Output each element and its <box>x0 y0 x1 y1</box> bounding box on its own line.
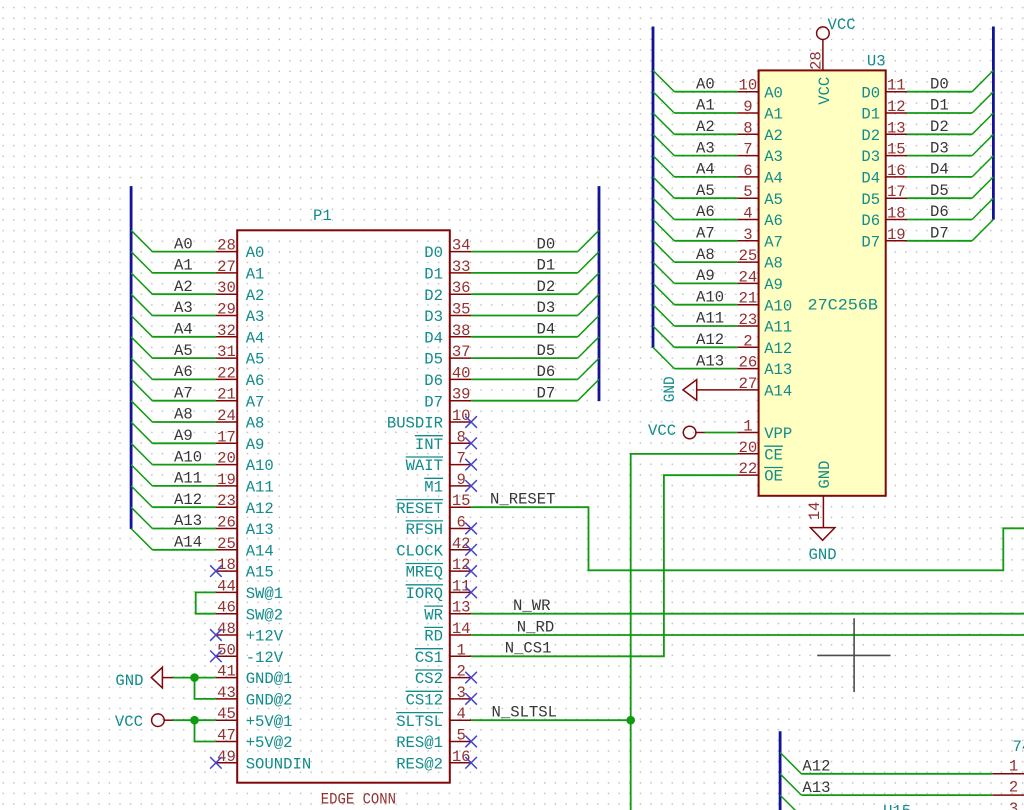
no-connect CLOCK <box>465 544 477 556</box>
wire D7 from P1 <box>471 400 578 402</box>
svg-text:GND: GND <box>809 546 837 564</box>
label A12 (U3) <box>696 331 724 349</box>
svg-text:17: 17 <box>887 183 906 201</box>
bus entry D6 (right) <box>972 198 993 219</box>
svg-text:21: 21 <box>217 386 236 404</box>
svg-text:RES@1: RES@1 <box>396 734 443 752</box>
pin 13 WR of P1 <box>424 599 471 625</box>
svg-text:45: 45 <box>217 705 236 723</box>
svg-text:20: 20 <box>217 450 236 468</box>
svg-text:4: 4 <box>457 705 466 723</box>
no-connect INT <box>465 438 477 450</box>
wire N_WR <box>471 613 1024 615</box>
svg-text:D0: D0 <box>861 84 880 102</box>
bus entry D1 (right) <box>972 92 993 113</box>
bus entry D1 <box>578 252 599 273</box>
wire A13 to P1 <box>152 528 216 530</box>
svg-text:A10: A10 <box>764 297 792 315</box>
pin 11 IORQ of P1 <box>406 577 472 603</box>
pin 12 MREQ of P1 <box>406 556 472 582</box>
pin 25 A14 of P1 <box>216 535 274 561</box>
label D4 (U3 right) <box>930 161 949 179</box>
svg-text:A13: A13 <box>696 352 724 370</box>
wire A10 to P1 <box>152 464 216 466</box>
label A7 (U3) <box>696 225 715 243</box>
pin 8 A2 of U3 <box>737 119 783 145</box>
svg-text:GND: GND <box>816 461 834 489</box>
svg-text:30: 30 <box>217 279 236 297</box>
label A1 (U3) <box>696 97 715 115</box>
svg-text:A5: A5 <box>246 351 265 369</box>
no-connect M1 <box>465 480 477 492</box>
pin 3 A7 of U3 <box>737 226 783 252</box>
svg-text:D4: D4 <box>861 170 880 188</box>
wire A11 to U3 <box>674 325 737 327</box>
bus entry D4 <box>578 316 599 337</box>
svg-text:A12: A12 <box>764 340 792 358</box>
svg-text:D5: D5 <box>424 351 443 369</box>
svg-text:D6: D6 <box>424 372 443 390</box>
svg-text:A4: A4 <box>246 329 265 347</box>
svg-text:A9: A9 <box>696 267 715 285</box>
svg-text:27: 27 <box>217 258 236 276</box>
label A9 <box>174 427 193 445</box>
pin 20 A10 of P1 <box>216 450 274 476</box>
no-connect SOUNDIN <box>210 757 222 769</box>
svg-text:A12: A12 <box>696 331 724 349</box>
svg-text:A13: A13 <box>246 521 274 539</box>
pin 3 CS12 of P1 <box>406 684 472 710</box>
bus entry A3 <box>131 294 152 315</box>
svg-text:A0: A0 <box>174 235 193 253</box>
pin 18 D6 of U3 <box>861 205 907 231</box>
svg-text:27C256B: 27C256B <box>808 296 879 314</box>
svg-text:D3: D3 <box>930 139 949 157</box>
svg-text:19: 19 <box>217 471 236 489</box>
svg-text:26: 26 <box>217 514 236 532</box>
value EDGE CONN <box>321 791 396 809</box>
no-connect WAIT <box>465 459 477 471</box>
svg-text:3: 3 <box>743 226 752 244</box>
wire VCC to pin +5V@2 <box>195 720 216 741</box>
label D2 <box>537 278 556 296</box>
label A10 (U3) <box>696 288 724 306</box>
label D7 (U3 right) <box>930 225 949 243</box>
svg-text:A3: A3 <box>696 139 715 157</box>
reference U15 <box>883 803 911 810</box>
pin 26 A13 of U3 <box>737 354 792 380</box>
label D6 (U3 right) <box>930 203 949 221</box>
pin 13 D2 of U3 <box>861 119 907 145</box>
pin 19 D7 of U3 <box>861 226 907 252</box>
pin 7 WAIT of P1 <box>406 450 472 476</box>
svg-text:D2: D2 <box>861 127 880 145</box>
pin 5 A5 of U3 <box>737 183 783 209</box>
label A10 <box>174 448 202 466</box>
svg-text:41: 41 <box>217 663 236 681</box>
pin 3 of U15 (clipped) <box>1009 800 1018 810</box>
label A3 (U3) <box>696 139 715 157</box>
svg-text:A2: A2 <box>764 127 783 145</box>
wire D2 from U3 <box>907 133 972 135</box>
svg-text:GND@2: GND@2 <box>246 692 293 710</box>
svg-text:D7: D7 <box>537 384 556 402</box>
svg-text:-12V: -12V <box>246 649 284 667</box>
pin 23 A12 of P1 <box>216 492 274 518</box>
svg-text:A0: A0 <box>696 75 715 93</box>
pin 48 +12V of P1 <box>216 620 284 646</box>
power symbol GND (U3 bottom) <box>809 528 837 564</box>
svg-text:CS12: CS12 <box>406 692 443 710</box>
svg-text:D1: D1 <box>537 257 556 275</box>
bus entry D2 <box>578 273 599 294</box>
pin 44 SW@1 of P1 <box>216 577 283 603</box>
svg-text:SW@2: SW@2 <box>246 606 283 624</box>
svg-text:A11: A11 <box>174 470 202 488</box>
svg-text:17: 17 <box>217 428 236 446</box>
wire A12 to P1 <box>152 506 216 508</box>
pin 47 +5V@2 of P1 <box>216 727 293 753</box>
svg-text:WAIT: WAIT <box>406 457 443 475</box>
bus entry A7 <box>131 379 152 400</box>
wire D4 from P1 <box>471 336 578 338</box>
bus entry A4 (U3) <box>653 156 674 177</box>
svg-text:CS2: CS2 <box>415 670 443 688</box>
bus entry D3 (right) <box>972 134 993 155</box>
bus entry D0 <box>578 230 599 251</box>
svg-text:7: 7 <box>457 450 466 468</box>
label A3 <box>174 299 193 317</box>
wire A3 to U3 <box>674 155 737 157</box>
svg-text:10: 10 <box>739 77 758 95</box>
bus entry D5 <box>578 337 599 358</box>
reference U3 <box>867 53 886 71</box>
svg-text:SLTSL: SLTSL <box>396 713 443 731</box>
svg-text:A7: A7 <box>696 225 715 243</box>
pin 2 A12 of U3 <box>737 332 792 358</box>
svg-text:D6: D6 <box>537 363 556 381</box>
svg-text:5: 5 <box>457 727 466 745</box>
label A12 (U15) <box>802 758 830 776</box>
pin 24 A9 of U3 <box>737 268 783 294</box>
label A4 (U3) <box>696 161 715 179</box>
svg-text:N_SLTSL: N_SLTSL <box>492 703 558 721</box>
label A8 <box>174 406 193 424</box>
svg-text:A10: A10 <box>246 457 274 475</box>
bus entry A5 (U3) <box>653 177 674 198</box>
wire A6 to P1 <box>152 378 216 380</box>
power symbol VCC (left) <box>115 713 173 731</box>
svg-text:A5: A5 <box>174 342 193 360</box>
bus (bottom right) <box>779 731 782 810</box>
svg-text:A8: A8 <box>246 415 265 433</box>
pin 1 VPP of U3 <box>737 418 792 444</box>
bus entry D3 <box>578 294 599 315</box>
wire A7 to U3 <box>674 240 737 242</box>
svg-text:46: 46 <box>217 599 236 617</box>
wire N_CS1 (to U3 OE) <box>471 475 737 656</box>
pin 1 of U15 <box>993 757 1024 775</box>
svg-text:VPP: VPP <box>764 425 792 443</box>
label A13 (U15) <box>802 779 830 797</box>
svg-text:A15: A15 <box>246 564 274 582</box>
svg-text:37: 37 <box>452 343 471 361</box>
bus entry D4 (right) <box>972 156 993 177</box>
svg-text:15: 15 <box>452 492 471 510</box>
bus entry D0 (right) <box>972 70 993 91</box>
label A9 (U3) <box>696 267 715 285</box>
svg-text:GND: GND <box>115 672 143 690</box>
label A13 <box>174 512 202 530</box>
bus entry A9 <box>131 422 152 443</box>
wire A3 to P1 <box>152 315 216 317</box>
pin 17 D5 of U3 <box>861 183 907 209</box>
svg-text:A8: A8 <box>764 255 783 273</box>
bus entry A1 <box>131 252 152 273</box>
svg-text:10: 10 <box>452 407 471 425</box>
svg-text:A10: A10 <box>696 288 724 306</box>
svg-text:16: 16 <box>452 748 471 766</box>
svg-text:27: 27 <box>739 375 758 393</box>
svg-text:74LS: 74LS <box>1013 738 1024 756</box>
pin 38 D4 of P1 <box>424 322 471 348</box>
bus entry A11 <box>131 465 152 486</box>
bus entry A9 (U3) <box>653 262 674 283</box>
svg-text:D3: D3 <box>861 148 880 166</box>
svg-text:23: 23 <box>739 311 758 329</box>
svg-text:A8: A8 <box>696 246 715 264</box>
svg-text:8: 8 <box>743 119 752 137</box>
pin 35 D3 of P1 <box>424 301 471 327</box>
svg-text:12: 12 <box>887 98 906 116</box>
label N_RD <box>517 618 554 636</box>
svg-text:D7: D7 <box>861 233 880 251</box>
svg-text:OE: OE <box>764 468 783 486</box>
no-connect CS2 <box>465 672 477 684</box>
svg-text:U3: U3 <box>867 53 886 71</box>
label A14 <box>174 534 202 552</box>
svg-text:A14: A14 <box>764 383 792 401</box>
wire D1 from U3 <box>907 112 972 114</box>
svg-text:11: 11 <box>452 577 471 595</box>
label A5 (U3) <box>696 182 715 200</box>
no-connect IORQ <box>465 587 477 599</box>
wire N_RESET <box>471 507 1024 570</box>
svg-text:D0: D0 <box>537 235 556 253</box>
bus entry A2 <box>131 273 152 294</box>
svg-text:A3: A3 <box>764 148 783 166</box>
connector P1 EDGE CONN <box>237 230 450 782</box>
svg-text:GND@1: GND@1 <box>246 670 293 688</box>
bus entry A1 (U3) <box>653 92 674 113</box>
svg-text:D4: D4 <box>424 329 443 347</box>
label N_RESET <box>490 491 556 509</box>
wire D6 from P1 <box>471 378 578 380</box>
svg-text:40: 40 <box>452 364 471 382</box>
svg-text:A13: A13 <box>764 361 792 379</box>
pin 9 A1 of U3 <box>737 98 783 124</box>
svg-text:3: 3 <box>457 684 466 702</box>
bus (data, right of U3) <box>992 27 995 220</box>
label D1 (U3 right) <box>930 97 949 115</box>
label N_SLTSL <box>492 703 558 721</box>
bus entry A2 (U3) <box>653 113 674 134</box>
pin 30 A2 of P1 <box>216 279 265 305</box>
label A13 (U3) <box>696 352 724 370</box>
no-connect RES@2 <box>465 757 477 769</box>
svg-text:RFSH: RFSH <box>406 521 443 539</box>
junction N_SLTSL <box>626 716 635 725</box>
svg-text:A4: A4 <box>764 170 783 188</box>
svg-text:2: 2 <box>1009 779 1018 797</box>
bus (address, left of P1) <box>130 186 133 529</box>
power symbol GND (A14) <box>661 376 737 402</box>
svg-text:A7: A7 <box>174 384 193 402</box>
label D1 <box>537 257 556 275</box>
svg-text:18: 18 <box>217 556 236 574</box>
pin 39 D7 of P1 <box>424 386 471 412</box>
svg-text:24: 24 <box>217 407 236 425</box>
pin 31 A5 of P1 <box>216 343 265 369</box>
bus entry A13 (U15) <box>780 774 801 795</box>
svg-text:D3: D3 <box>424 308 443 326</box>
svg-text:13: 13 <box>887 119 906 137</box>
no-connect CS12 <box>465 693 477 705</box>
pin 42 CLOCK of P1 <box>396 535 471 561</box>
bus entry A12 (U3) <box>653 326 674 347</box>
svg-text:INT: INT <box>415 436 443 454</box>
power symbol VCC (U3 top) <box>817 16 856 40</box>
svg-text:MREQ: MREQ <box>406 564 443 582</box>
svg-text:SW@1: SW@1 <box>246 585 283 603</box>
no-connect BUSDIR <box>465 416 477 428</box>
svg-text:50: 50 <box>217 641 236 659</box>
pin 8 INT of P1 <box>415 428 471 454</box>
pin 32 A4 of P1 <box>216 322 265 348</box>
wire D0 from P1 <box>471 251 578 253</box>
svg-text:D2: D2 <box>930 118 949 136</box>
label A11 <box>174 470 202 488</box>
svg-text:A2: A2 <box>696 118 715 136</box>
pin 16 D4 of U3 <box>861 162 907 188</box>
wire D5 from P1 <box>471 357 578 359</box>
pin 16 RES@2 of P1 <box>396 748 471 774</box>
svg-text:39: 39 <box>452 386 471 404</box>
no-connect -12V <box>210 651 222 663</box>
svg-text:9: 9 <box>457 471 466 489</box>
wire A9 to P1 <box>152 442 216 444</box>
pin 21 A10 of U3 <box>737 290 792 316</box>
svg-text:A4: A4 <box>696 161 715 179</box>
pin 15 RESET of P1 <box>396 492 471 518</box>
label A4 <box>174 321 193 339</box>
pin 43 GND@2 of P1 <box>216 684 293 710</box>
svg-text:M1: M1 <box>424 479 443 497</box>
svg-text:D2: D2 <box>424 287 443 305</box>
wire A8 to P1 <box>152 421 216 423</box>
pin 14 RD of P1 <box>424 620 471 646</box>
bus entry A4 <box>131 316 152 337</box>
svg-text:D7: D7 <box>424 393 443 411</box>
svg-text:38: 38 <box>452 322 471 340</box>
svg-text:D7: D7 <box>930 225 949 243</box>
svg-text:A11: A11 <box>246 479 274 497</box>
svg-text:A13: A13 <box>802 779 830 797</box>
label D3 <box>537 299 556 317</box>
pin 34 D0 of P1 <box>424 237 471 263</box>
label N_WR <box>513 597 550 615</box>
bus entry D7 <box>578 379 599 400</box>
svg-text:D5: D5 <box>930 182 949 200</box>
pin 46 SW@2 of P1 <box>216 599 283 625</box>
svg-text:13: 13 <box>452 599 471 617</box>
bus entry D2 (right) <box>972 113 993 134</box>
wire A5 to U3 <box>674 197 737 199</box>
svg-text:1: 1 <box>457 641 466 659</box>
svg-text:WR: WR <box>424 606 443 624</box>
pin 22 OE of U3 <box>737 460 783 486</box>
pin 18 A15 of P1 <box>216 556 274 582</box>
label D0 <box>537 235 556 253</box>
svg-text:D4: D4 <box>930 161 949 179</box>
wire D3 from U3 <box>907 155 972 157</box>
svg-text:A0: A0 <box>764 84 783 102</box>
wire A12 to U15 <box>801 773 992 775</box>
svg-text:D2: D2 <box>537 278 556 296</box>
wire A14 to P1 <box>152 549 216 551</box>
label D6 <box>537 363 556 381</box>
svg-text:42: 42 <box>452 535 471 553</box>
svg-text:48: 48 <box>217 620 236 638</box>
wire D0 from U3 <box>907 91 972 93</box>
label A11 (U3) <box>696 310 724 328</box>
svg-text:16: 16 <box>887 162 906 180</box>
wire N_SLTSL <box>471 719 631 721</box>
svg-text:A5: A5 <box>764 191 783 209</box>
svg-text:A1: A1 <box>764 106 783 124</box>
bus entry A6 <box>131 358 152 379</box>
svg-text:33: 33 <box>452 258 471 276</box>
pin 26 A13 of P1 <box>216 514 274 540</box>
pin 6 A4 of U3 <box>737 162 783 188</box>
svg-text:D6: D6 <box>861 212 880 230</box>
bus entry A6 (U3) <box>653 198 674 219</box>
wire A12 to U3 <box>674 346 737 348</box>
svg-text:2: 2 <box>457 663 466 681</box>
bus entry A12 (U15) <box>780 753 801 774</box>
svg-text:A12: A12 <box>802 758 830 776</box>
svg-text:CS1: CS1 <box>415 649 443 667</box>
pin 22 A6 of P1 <box>216 364 265 390</box>
svg-text:6: 6 <box>457 514 466 532</box>
wire D5 from U3 <box>907 197 972 199</box>
svg-text:22: 22 <box>217 364 236 382</box>
wire D3 from P1 <box>471 315 578 317</box>
svg-text:A12: A12 <box>174 491 202 509</box>
cursor crosshair <box>817 618 890 692</box>
label D7 <box>537 384 556 402</box>
bus (address, left of U3) <box>652 27 655 348</box>
svg-text:23: 23 <box>217 492 236 510</box>
bus entry D6 <box>578 358 599 379</box>
label D5 <box>537 342 556 360</box>
svg-text:A14: A14 <box>246 542 274 560</box>
pin 5 RES@1 of P1 <box>396 727 471 753</box>
label D0 (U3 right) <box>930 75 949 93</box>
bus entry A0 (U3) <box>653 70 674 91</box>
svg-text:D6: D6 <box>930 203 949 221</box>
svg-text:A0: A0 <box>246 244 265 262</box>
